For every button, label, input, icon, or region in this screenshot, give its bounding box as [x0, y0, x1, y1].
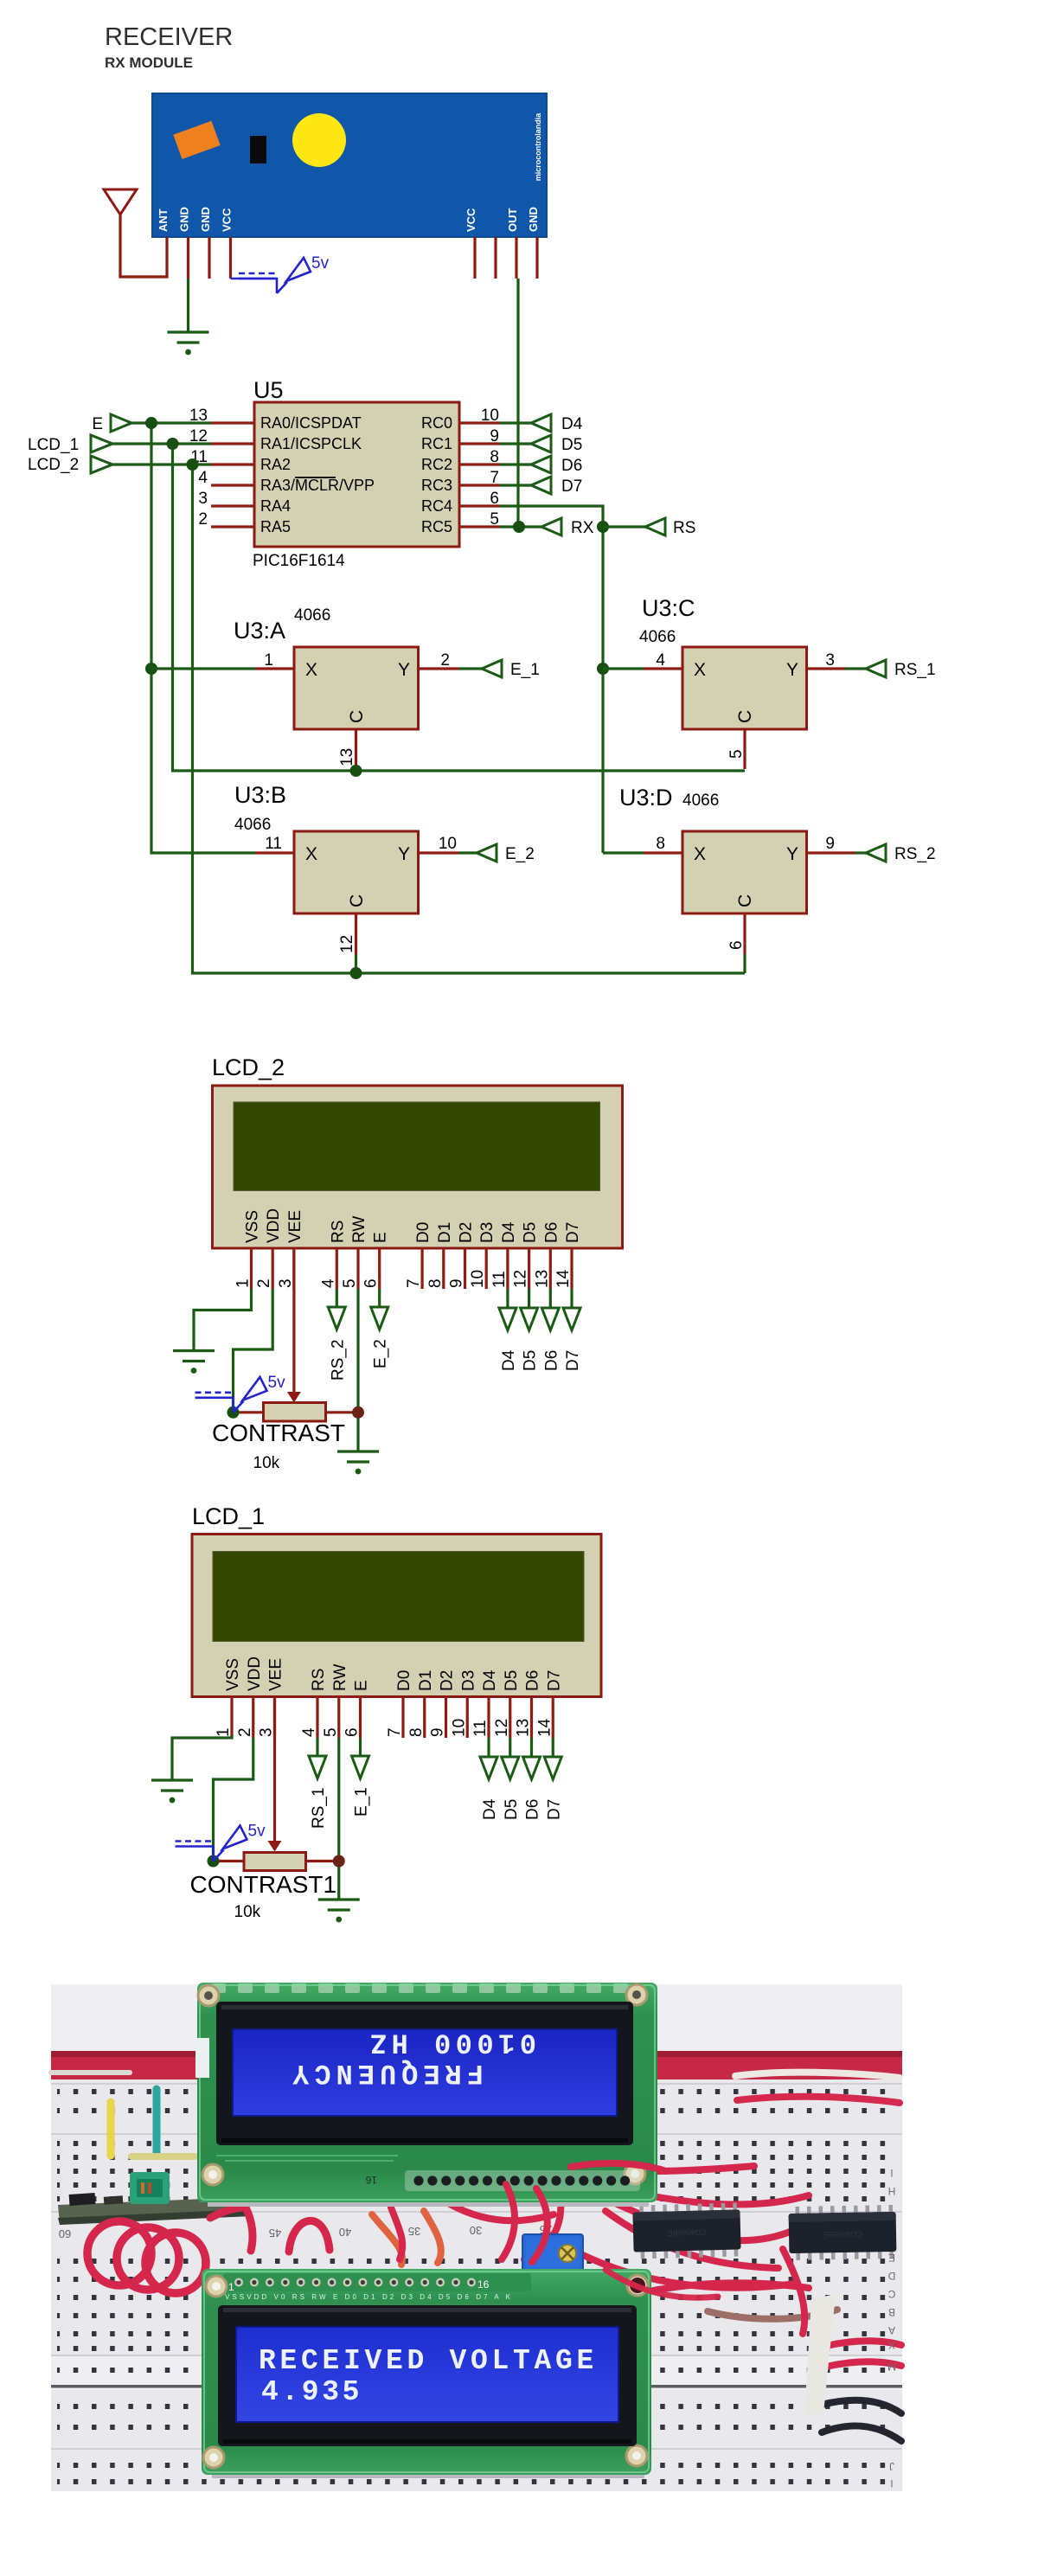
svg-text:13: 13	[533, 1270, 551, 1288]
svg-text:2: 2	[198, 510, 208, 529]
svg-text:LCD_2: LCD_2	[212, 1054, 285, 1080]
svg-text:E_1: E_1	[510, 661, 540, 679]
svg-text:13: 13	[189, 407, 208, 425]
svg-text:D6: D6	[542, 1350, 561, 1371]
svg-text:RC1: RC1	[421, 435, 452, 452]
svg-text:RA4: RA4	[260, 497, 291, 515]
svg-text:10: 10	[439, 835, 457, 853]
svg-text:6: 6	[727, 940, 746, 950]
svg-text:VEE: VEE	[286, 1210, 304, 1243]
svg-text:LCD_1: LCD_1	[192, 1503, 265, 1529]
svg-text:GND: GND	[178, 207, 191, 232]
svg-text:11: 11	[265, 835, 282, 853]
svg-text:9: 9	[825, 835, 835, 853]
svg-text:CONTRAST: CONTRAST	[212, 1419, 345, 1446]
svg-text:1: 1	[234, 1278, 253, 1288]
svg-text:1: 1	[215, 1727, 233, 1737]
svg-text:2: 2	[440, 651, 450, 670]
svg-text:LCD_1: LCD_1	[28, 436, 79, 454]
svg-text:D3: D3	[478, 1222, 497, 1243]
svg-text:U3:B: U3:B	[234, 782, 286, 808]
svg-text:45: 45	[269, 2227, 281, 2240]
svg-text:RX: RX	[571, 519, 594, 537]
svg-text:6: 6	[490, 490, 499, 508]
svg-text:microcontrolandia: microcontrolandia	[534, 112, 542, 182]
svg-text:RS: RS	[310, 1669, 328, 1691]
svg-text:8: 8	[656, 835, 665, 853]
svg-text:M: M	[887, 2361, 896, 2373]
svg-text:C: C	[887, 2288, 895, 2300]
svg-text:RS: RS	[329, 1221, 347, 1243]
svg-text:14: 14	[554, 1269, 573, 1288]
svg-text:16: 16	[365, 2174, 377, 2186]
svg-text:Y: Y	[786, 660, 798, 680]
svg-text:I: I	[890, 2477, 893, 2489]
svg-text:H: H	[888, 2185, 896, 2197]
svg-text:A: A	[888, 2324, 895, 2336]
svg-text:8: 8	[490, 448, 499, 466]
svg-text:RA3/MCLR/VPP: RA3/MCLR/VPP	[260, 477, 375, 494]
svg-text:U3:D: U3:D	[619, 785, 673, 811]
svg-text:RA0/ICSPDAT: RA0/ICSPDAT	[260, 414, 362, 432]
svg-text:40: 40	[339, 2226, 351, 2239]
svg-text:RC0: RC0	[421, 414, 452, 432]
svg-text:RS_1: RS_1	[310, 1787, 328, 1829]
svg-text:ANT: ANT	[157, 208, 170, 232]
svg-text:13: 13	[515, 1719, 533, 1737]
svg-text:5: 5	[490, 510, 499, 529]
svg-text:4: 4	[656, 651, 665, 670]
svg-text:RW: RW	[350, 1216, 368, 1243]
svg-text:OUT: OUT	[506, 208, 519, 233]
svg-text:C: C	[347, 710, 367, 723]
svg-text:2: 2	[236, 1727, 254, 1737]
svg-text:D5: D5	[561, 436, 582, 454]
svg-text:Y: Y	[786, 844, 798, 864]
svg-text:3: 3	[277, 1278, 295, 1288]
svg-text:12: 12	[189, 427, 208, 445]
svg-text:12: 12	[338, 935, 356, 953]
svg-text:D7: D7	[545, 1670, 563, 1691]
svg-text:RC2: RC2	[421, 456, 452, 473]
svg-text:6: 6	[362, 1278, 381, 1288]
svg-text:GND: GND	[527, 207, 540, 232]
svg-text:D4: D4	[481, 1798, 499, 1820]
svg-text:D7: D7	[564, 1222, 582, 1243]
svg-text:RA1/ICSPCLK: RA1/ICSPCLK	[260, 435, 362, 452]
svg-text:X: X	[694, 660, 706, 680]
svg-text:30: 30	[470, 2224, 482, 2237]
svg-text:4: 4	[300, 1727, 318, 1737]
svg-text:12: 12	[493, 1719, 511, 1737]
svg-text:D5: D5	[503, 1799, 521, 1820]
svg-text:E_1: E_1	[353, 1787, 371, 1817]
svg-text:D4: D4	[561, 415, 583, 433]
svg-text:CD4066BE: CD4066BE	[667, 2227, 706, 2237]
svg-text:D1: D1	[436, 1222, 454, 1243]
svg-text:D2: D2	[439, 1670, 457, 1691]
svg-text:D7: D7	[564, 1350, 582, 1371]
svg-text:3: 3	[258, 1727, 276, 1737]
svg-text:B: B	[888, 2306, 895, 2318]
svg-text:C: C	[735, 894, 755, 907]
svg-text:CONTRAST1: CONTRAST1	[190, 1871, 337, 1898]
svg-text:E_2: E_2	[372, 1339, 390, 1368]
svg-text:C: C	[735, 710, 755, 723]
svg-text:4: 4	[319, 1278, 337, 1288]
svg-text:Y: Y	[398, 844, 410, 864]
svg-text:3: 3	[825, 651, 835, 670]
svg-text:4.935: 4.935	[261, 2376, 362, 2408]
svg-text:14: 14	[535, 1718, 554, 1737]
svg-text:FREQUENCY: FREQUENCY	[287, 2057, 484, 2089]
svg-text:D5: D5	[522, 1222, 540, 1243]
svg-text:VCC: VCC	[465, 208, 477, 232]
svg-text:RS: RS	[673, 519, 695, 537]
svg-text:PIC16F1614: PIC16F1614	[253, 552, 345, 570]
svg-text:E: E	[92, 415, 103, 433]
svg-text:D5: D5	[522, 1350, 540, 1371]
svg-text:D6: D6	[524, 1799, 542, 1820]
svg-text:10: 10	[450, 1719, 468, 1737]
svg-text:D6: D6	[542, 1222, 561, 1243]
svg-text:D6: D6	[524, 1670, 542, 1691]
svg-text:X: X	[305, 844, 317, 864]
svg-text:12: 12	[512, 1270, 530, 1288]
svg-text:7: 7	[490, 469, 499, 487]
svg-text:RS_2: RS_2	[894, 845, 936, 863]
svg-text:D0: D0	[395, 1670, 413, 1691]
svg-text:16: 16	[477, 2278, 490, 2291]
svg-text:U5: U5	[253, 377, 284, 403]
svg-text:D: D	[887, 2270, 895, 2282]
svg-text:LCD_2: LCD_2	[28, 456, 79, 474]
svg-text:2: 2	[255, 1278, 273, 1288]
svg-text:3: 3	[198, 490, 208, 508]
svg-text:Y: Y	[398, 660, 410, 680]
svg-text:D4: D4	[500, 1349, 518, 1371]
svg-text:RC4: RC4	[421, 497, 452, 515]
svg-text:X: X	[694, 844, 706, 864]
svg-text:E: E	[372, 1232, 390, 1243]
svg-text:4066: 4066	[639, 628, 676, 646]
svg-text:RA5: RA5	[260, 518, 291, 535]
svg-text:4066: 4066	[682, 791, 719, 810]
svg-text:5: 5	[341, 1278, 359, 1288]
svg-text:E_2: E_2	[505, 845, 535, 863]
svg-text:11: 11	[490, 1271, 509, 1288]
svg-text:VEE: VEE	[267, 1658, 285, 1691]
svg-text:60: 60	[59, 2227, 71, 2240]
svg-text:7: 7	[386, 1727, 404, 1737]
svg-text:D7: D7	[545, 1799, 563, 1820]
svg-text:D1: D1	[417, 1670, 435, 1691]
svg-text:5: 5	[322, 1727, 340, 1737]
svg-text:CD4066BE: CD4066BE	[823, 2230, 862, 2240]
svg-text:9: 9	[429, 1727, 447, 1737]
svg-text:10: 10	[481, 407, 499, 425]
svg-text:13: 13	[338, 748, 356, 766]
svg-text:I: I	[890, 2167, 893, 2179]
svg-text:1: 1	[228, 2281, 234, 2293]
svg-text:RECEIVER: RECEIVER	[105, 23, 233, 51]
svg-text:RW: RW	[331, 1664, 349, 1691]
svg-text:4: 4	[198, 469, 208, 487]
svg-text:U3:A: U3:A	[234, 618, 285, 644]
svg-text:D6: D6	[561, 457, 582, 475]
svg-text:D3: D3	[459, 1670, 477, 1691]
svg-text:5: 5	[727, 749, 746, 759]
svg-text:D4: D4	[481, 1669, 499, 1691]
svg-text:J: J	[889, 2460, 894, 2472]
svg-text:C: C	[347, 894, 367, 907]
svg-text:35: 35	[408, 2225, 420, 2238]
svg-text:D2: D2	[458, 1222, 476, 1243]
svg-text:4066: 4066	[234, 816, 271, 834]
svg-text:8: 8	[426, 1278, 445, 1288]
svg-text:D5: D5	[503, 1670, 521, 1691]
svg-text:RS_1: RS_1	[894, 661, 936, 679]
svg-text:X: X	[888, 2339, 895, 2351]
svg-text:VCC: VCC	[221, 208, 234, 232]
svg-text:9: 9	[448, 1278, 466, 1288]
svg-text:GND: GND	[199, 207, 212, 232]
svg-text:10: 10	[469, 1270, 487, 1288]
svg-text:6: 6	[343, 1727, 362, 1737]
svg-text:E: E	[888, 2252, 895, 2264]
svg-text:4066: 4066	[294, 606, 330, 625]
svg-text:RC5: RC5	[421, 518, 452, 535]
svg-text:11: 11	[471, 1720, 490, 1737]
svg-text:VDD: VDD	[265, 1208, 283, 1243]
svg-text:D7: D7	[561, 477, 582, 496]
svg-text:VSS: VSS	[224, 1658, 242, 1691]
svg-text:10k: 10k	[234, 1903, 261, 1921]
svg-text:01000 HZ: 01000 HZ	[365, 2027, 536, 2059]
svg-text:10k: 10k	[253, 1454, 280, 1472]
svg-text:D0: D0	[414, 1222, 432, 1243]
svg-text:RECEIVED VOLTAGE: RECEIVED VOLTAGE	[259, 2345, 598, 2377]
svg-text:1: 1	[264, 651, 273, 670]
svg-text:RA2: RA2	[260, 456, 291, 473]
svg-text:RS_2: RS_2	[329, 1339, 347, 1381]
svg-text:X: X	[305, 660, 317, 680]
svg-text:8: 8	[407, 1727, 426, 1737]
svg-text:RC3: RC3	[421, 477, 452, 494]
svg-text:9: 9	[490, 427, 499, 445]
svg-text:D4: D4	[500, 1221, 518, 1243]
svg-text:U3:C: U3:C	[642, 595, 695, 621]
svg-text:VDD: VDD	[246, 1656, 264, 1691]
svg-text:E: E	[353, 1680, 371, 1691]
svg-text:VSS: VSS	[244, 1210, 262, 1243]
svg-text:7: 7	[405, 1278, 423, 1288]
svg-text:RX MODULE: RX MODULE	[105, 54, 193, 71]
